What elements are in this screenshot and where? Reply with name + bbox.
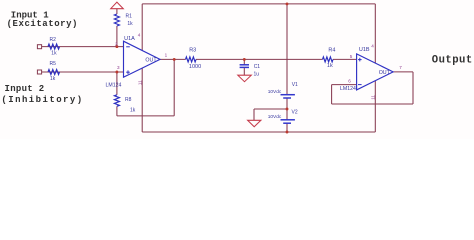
svg-text:R3: R3 <box>189 48 196 54</box>
svg-text:1000: 1000 <box>189 64 201 70</box>
op-amp U1B <box>357 54 394 90</box>
wire U1A output to R3 <box>160 58 186 60</box>
wire U1B pin11 stub <box>374 81 376 132</box>
junction node A <box>115 45 118 48</box>
wire node B down to R8 <box>116 72 118 95</box>
port input 1 <box>37 45 41 49</box>
U1B minus sign <box>358 84 362 86</box>
wire input1 to U1A pin2 <box>42 46 124 48</box>
svg-text:(Inhibitory): (Inhibitory) <box>1 95 83 105</box>
wire V+ rail down to V1 <box>286 4 288 95</box>
wire C1 to ground <box>243 67 245 75</box>
power VCC arrow <box>111 2 124 9</box>
svg-text:1k: 1k <box>130 108 136 114</box>
U1B plus sign <box>358 59 362 61</box>
svg-text:V2: V2 <box>292 110 298 116</box>
wire V+ rail <box>142 3 375 5</box>
junction V+ rail supply <box>286 2 289 5</box>
junction U1A output node <box>173 58 176 61</box>
svg-text:4: 4 <box>138 32 141 37</box>
port input 2 <box>37 70 41 74</box>
svg-text:R4: R4 <box>328 48 335 54</box>
svg-text:4: 4 <box>371 43 374 48</box>
svg-text:1k: 1k <box>327 63 333 69</box>
wire V1 to mid node <box>286 98 288 120</box>
wire U1A pin11 stub down to V- rail <box>141 68 143 132</box>
junction supply mid node <box>286 108 289 111</box>
wire feedback bottom <box>332 103 413 105</box>
wire feedback right up <box>412 72 414 104</box>
svg-text:R2: R2 <box>50 37 57 43</box>
svg-text:1k: 1k <box>51 51 57 57</box>
wire R3 to R4 through C1 node <box>196 58 323 60</box>
svg-text:7: 7 <box>399 65 402 70</box>
wire U1B pin6 <box>332 84 357 86</box>
svg-text:1: 1 <box>165 53 168 58</box>
svg-text:10Vdc: 10Vdc <box>268 89 282 95</box>
wire mid node to ground 2 <box>254 108 287 110</box>
svg-text:5: 5 <box>350 54 353 59</box>
svg-text:R1: R1 <box>126 14 133 20</box>
wire R4 to U1B pin5 <box>333 58 357 60</box>
ground 0 at supply mid <box>248 120 261 127</box>
wire U1B output <box>393 71 413 73</box>
svg-text:LM124: LM124 <box>340 86 356 92</box>
svg-text:10Vdc: 10Vdc <box>268 114 282 120</box>
wire ground 2 stub <box>253 109 255 120</box>
wire VCC stem <box>116 9 118 14</box>
capacitor C1 <box>240 64 249 66</box>
svg-text:(Excitatory): (Excitatory) <box>7 19 78 29</box>
source V2 <box>281 119 295 121</box>
wire R1 to node A <box>116 26 118 47</box>
svg-text:OUT: OUT <box>145 57 157 63</box>
resistor R3 <box>186 57 197 62</box>
op-amp U1A <box>124 41 161 77</box>
svg-text:3: 3 <box>117 65 120 70</box>
svg-text:1k: 1k <box>50 76 56 82</box>
svg-text:C1: C1 <box>254 64 261 70</box>
wire feedback left down <box>331 85 333 104</box>
svg-text:1u: 1u <box>254 72 260 78</box>
U1A minus sign <box>126 46 130 48</box>
wire feedback vertical up to output node <box>173 59 175 116</box>
svg-text:11: 11 <box>137 80 142 85</box>
wire C1 stem <box>243 59 245 64</box>
source V1 <box>281 94 295 96</box>
svg-text:LM124: LM124 <box>106 82 122 88</box>
svg-text:U1A: U1A <box>124 36 135 42</box>
wire R8 feedback horizontal <box>117 115 174 117</box>
wire V- rail <box>142 131 375 133</box>
svg-text:6: 6 <box>348 78 351 83</box>
ground 0 under C1 <box>238 75 252 82</box>
svg-text:R8: R8 <box>125 97 132 103</box>
svg-text:OUT: OUT <box>379 70 391 76</box>
resistor R5 <box>48 70 60 75</box>
wire R8 bottom stem <box>116 106 118 116</box>
svg-text:Output: Output <box>432 54 473 66</box>
wire input2 to U1A pin3 <box>42 71 124 73</box>
resistor R1 vertical <box>114 14 119 26</box>
resistor R8 vertical <box>114 95 119 107</box>
junction V- rail supply <box>286 131 289 134</box>
svg-text:1k: 1k <box>127 21 133 27</box>
U1A plus sign <box>126 71 130 73</box>
wire V2 to V- rail <box>286 123 288 132</box>
svg-text:R5: R5 <box>50 61 57 67</box>
junction node B <box>115 71 118 74</box>
junction C1 node <box>243 58 246 61</box>
svg-text:U1B: U1B <box>359 47 370 53</box>
wire U1A pin4 stub <box>141 4 143 51</box>
wire U1B pin4 stub <box>374 4 376 63</box>
svg-text:Input 2: Input 2 <box>5 84 45 94</box>
svg-text:V1: V1 <box>292 82 298 88</box>
svg-text:2: 2 <box>115 42 118 47</box>
svg-text:11: 11 <box>371 95 376 100</box>
resistor R2 <box>48 44 60 49</box>
resistor R4 <box>323 57 334 62</box>
